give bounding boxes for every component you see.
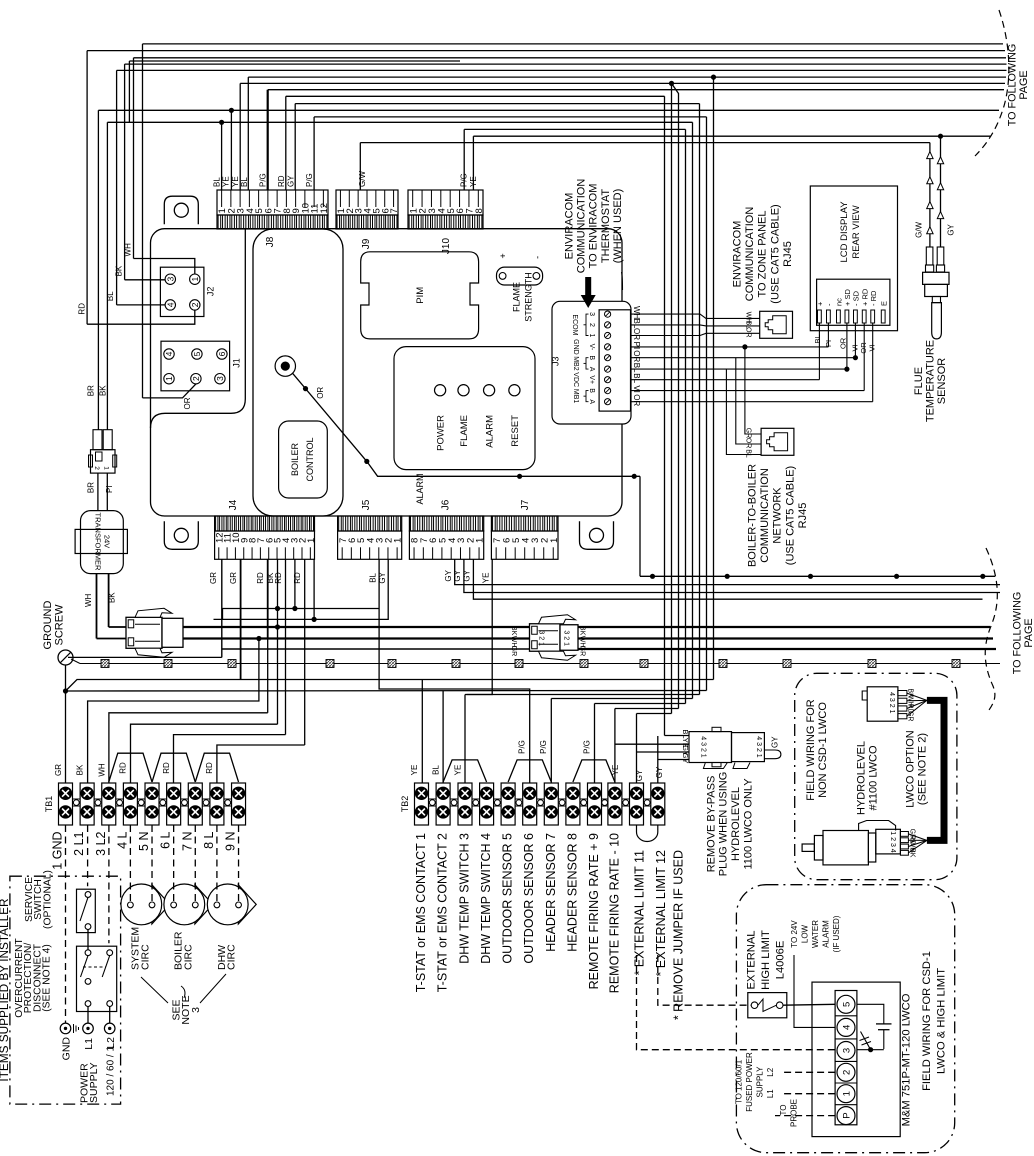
svg-text:GROUND: GROUND bbox=[42, 601, 54, 650]
svg-text:1100 LWCO ONLY: 1100 LWCO ONLY bbox=[742, 778, 754, 870]
svg-text:(SEE NOTE 4): (SEE NOTE 4) bbox=[42, 944, 53, 1012]
svg-text:TRANSFORMER: TRANSFORMER bbox=[93, 513, 102, 572]
svg-text:GND: GND bbox=[572, 339, 579, 355]
svg-text:REMOVE BY-PASS: REMOVE BY-PASS bbox=[705, 776, 717, 873]
svg-text:4: 4 bbox=[164, 351, 174, 356]
svg-text:COMMUNICATION: COMMUNICATION bbox=[744, 207, 756, 302]
svg-text:3: 3 bbox=[215, 376, 225, 381]
svg-text:E: E bbox=[879, 301, 888, 306]
svg-text:1: 1 bbox=[588, 334, 595, 338]
svg-text:FIELD WIRING FOR: FIELD WIRING FOR bbox=[805, 699, 817, 801]
svg-text:OR: OR bbox=[838, 337, 847, 349]
svg-text:9 N: 9 N bbox=[224, 832, 238, 851]
svg-text:P: P bbox=[842, 1112, 853, 1118]
svg-text:SUPPLY: SUPPLY bbox=[756, 1066, 765, 1098]
svg-text:LOW: LOW bbox=[801, 924, 810, 943]
svg-text:3: 3 bbox=[842, 1048, 853, 1053]
svg-text:BK: BK bbox=[908, 848, 915, 858]
svg-text:DHW TEMP SWITCH 3: DHW TEMP SWITCH 3 bbox=[458, 833, 472, 964]
svg-text:J8: J8 bbox=[265, 236, 276, 247]
svg-text:GR: GR bbox=[54, 764, 63, 776]
svg-text:+: + bbox=[816, 301, 825, 306]
svg-text:GR: GR bbox=[229, 572, 238, 584]
svg-text:GR: GR bbox=[209, 572, 218, 584]
svg-text:2: 2 bbox=[842, 1070, 853, 1075]
svg-text:PAGE: PAGE bbox=[1018, 70, 1030, 99]
svg-text:1: 1 bbox=[190, 277, 200, 282]
svg-text:CIRC: CIRC bbox=[182, 944, 194, 970]
svg-text:GY: GY bbox=[635, 769, 644, 781]
svg-text:TO 24V: TO 24V bbox=[790, 920, 799, 948]
svg-text:1: 1 bbox=[164, 376, 174, 381]
svg-text:OR: OR bbox=[632, 394, 641, 406]
svg-text:VDC: VDC bbox=[572, 372, 579, 387]
svg-text:REAR VIEW: REAR VIEW bbox=[851, 205, 862, 258]
svg-text:B: B bbox=[588, 355, 595, 360]
svg-text:VI: VI bbox=[867, 344, 876, 351]
svg-text:NON CSD-1 LWCO: NON CSD-1 LWCO bbox=[817, 702, 829, 798]
svg-text:BK: BK bbox=[76, 764, 85, 775]
svg-text:BL: BL bbox=[432, 765, 441, 775]
svg-text:BR: BR bbox=[87, 385, 96, 396]
svg-text:8 L: 8 L bbox=[202, 831, 216, 848]
svg-text:TO FOLLOWING: TO FOLLOWING bbox=[1007, 44, 1019, 127]
svg-text:J7: J7 bbox=[520, 499, 531, 510]
svg-text:J6: J6 bbox=[441, 499, 452, 510]
svg-text:6 L: 6 L bbox=[159, 831, 173, 848]
svg-text:ALARM: ALARM bbox=[822, 920, 831, 948]
svg-text:CONTROL: CONTROL bbox=[305, 437, 315, 481]
svg-text:COMMUNICATION: COMMUNICATION bbox=[759, 468, 771, 563]
svg-text:J1: J1 bbox=[232, 358, 242, 368]
svg-text:4 3 2 1: 4 3 2 1 bbox=[755, 736, 762, 758]
svg-text:J2: J2 bbox=[206, 287, 216, 297]
svg-text:YE: YE bbox=[410, 765, 419, 776]
svg-text:GY: GY bbox=[286, 175, 295, 187]
svg-text:TO ENVIRACOM: TO ENVIRACOM bbox=[588, 184, 600, 269]
svg-text:G/W: G/W bbox=[915, 221, 924, 237]
svg-text:WATER: WATER bbox=[811, 920, 820, 948]
svg-text:GY: GY bbox=[463, 569, 472, 581]
svg-text:120 / 60 / 1: 120 / 60 / 1 bbox=[106, 1046, 117, 1096]
svg-text:(USE CAT5 CABLE): (USE CAT5 CABLE) bbox=[784, 466, 796, 565]
svg-text:OR: OR bbox=[745, 327, 752, 338]
svg-text:BL: BL bbox=[813, 334, 822, 343]
svg-text:P/G: P/G bbox=[539, 740, 548, 754]
svg-text:SCREW: SCREW bbox=[54, 604, 66, 646]
svg-text:LWCO OPTION: LWCO OPTION bbox=[904, 730, 916, 807]
svg-text:12: 12 bbox=[319, 203, 330, 214]
svg-text:2: 2 bbox=[588, 323, 595, 327]
svg-text:COMMUNICATION: COMMUNICATION bbox=[576, 179, 588, 274]
svg-text:TB2: TB2 bbox=[400, 796, 410, 813]
svg-text:FLUE: FLUE bbox=[913, 367, 925, 395]
svg-text:1: 1 bbox=[306, 538, 317, 543]
svg-text:RD: RD bbox=[205, 762, 214, 774]
svg-text:RD: RD bbox=[77, 303, 86, 315]
svg-text:4: 4 bbox=[166, 302, 176, 307]
svg-text:BL: BL bbox=[632, 363, 641, 373]
svg-text:BL: BL bbox=[632, 373, 641, 383]
svg-text:P/G: P/G bbox=[460, 173, 469, 187]
svg-text:3: 3 bbox=[588, 312, 595, 316]
svg-text:2: 2 bbox=[191, 376, 201, 381]
svg-text:TEMPERATURE: TEMPERATURE bbox=[924, 340, 936, 422]
svg-text:HEADER SENSOR 8: HEADER SENSOR 8 bbox=[565, 833, 579, 952]
svg-text:M&M 751P-MT-120 LWCO: M&M 751P-MT-120 LWCO bbox=[901, 993, 913, 1126]
svg-text:YE: YE bbox=[222, 176, 231, 187]
svg-text:ALARM: ALARM bbox=[485, 415, 496, 448]
svg-text:OR: OR bbox=[745, 438, 752, 449]
svg-text:BOILER: BOILER bbox=[290, 442, 300, 476]
svg-text:BR: BR bbox=[87, 482, 96, 493]
svg-text:CIRC: CIRC bbox=[139, 944, 151, 970]
svg-text:1: 1 bbox=[549, 538, 560, 543]
svg-text:5: 5 bbox=[192, 351, 202, 356]
svg-text:PIM: PIM bbox=[415, 287, 426, 304]
svg-text:RD: RD bbox=[256, 572, 265, 584]
svg-text:PI: PI bbox=[105, 485, 114, 493]
svg-text:GR: GR bbox=[510, 646, 517, 657]
svg-text:7 N: 7 N bbox=[180, 832, 194, 851]
svg-text:4 3 2 1: 4 3 2 1 bbox=[888, 692, 895, 714]
svg-text:3 2 1: 3 2 1 bbox=[563, 630, 570, 646]
svg-text:HYDROLEVEL: HYDROLEVEL bbox=[730, 787, 742, 861]
svg-text:PLUG WHEN USING: PLUG WHEN USING bbox=[718, 772, 730, 877]
svg-text:WH: WH bbox=[84, 594, 93, 608]
svg-text:GR: GR bbox=[745, 428, 752, 439]
svg-text:YE: YE bbox=[482, 573, 491, 584]
svg-text:4 3 2 1: 4 3 2 1 bbox=[700, 736, 707, 758]
svg-text:PI: PI bbox=[632, 342, 641, 350]
svg-text:BL: BL bbox=[368, 572, 377, 582]
svg-text:ALARM: ALARM bbox=[415, 473, 425, 504]
svg-text:RJ45: RJ45 bbox=[797, 503, 809, 529]
svg-text:- RD: - RD bbox=[869, 290, 878, 306]
svg-text:THERMOSTAT: THERMOSTAT bbox=[600, 189, 612, 263]
svg-text:TO: TO bbox=[779, 1105, 788, 1116]
svg-text:GY: GY bbox=[947, 223, 956, 235]
svg-text:STRENGTH: STRENGTH bbox=[524, 272, 534, 322]
svg-text:2: 2 bbox=[190, 302, 200, 307]
svg-text:8: 8 bbox=[474, 208, 485, 213]
svg-text:HYDROLEVEL: HYDROLEVEL bbox=[855, 741, 867, 815]
svg-text:(IF USED): (IF USED) bbox=[832, 915, 841, 952]
svg-text:OUTDOOR SENSOR 6: OUTDOOR SENSOR 6 bbox=[522, 833, 536, 964]
svg-text:* EXTERNAL LIMIT 12: * EXTERNAL LIMIT 12 bbox=[654, 850, 668, 976]
svg-text:P/G: P/G bbox=[582, 740, 591, 754]
svg-text:MB2: MB2 bbox=[572, 356, 579, 371]
svg-text:GY: GY bbox=[770, 736, 779, 748]
svg-text:GY: GY bbox=[655, 766, 664, 778]
svg-text:BL: BL bbox=[240, 177, 249, 187]
svg-text:5: 5 bbox=[842, 1002, 853, 1007]
svg-text:REMOTE FIRING RATE - 10: REMOTE FIRING RATE - 10 bbox=[607, 833, 621, 993]
svg-text:V+: V+ bbox=[588, 375, 595, 384]
svg-text:RESET: RESET bbox=[510, 415, 521, 447]
svg-text:CIRC: CIRC bbox=[226, 944, 238, 970]
svg-text:OR: OR bbox=[632, 328, 641, 340]
svg-text:G/W: G/W bbox=[358, 171, 367, 187]
svg-text:RD: RD bbox=[119, 762, 128, 774]
svg-text:3: 3 bbox=[166, 277, 176, 282]
svg-text:(OPTIONAL): (OPTIONAL) bbox=[42, 870, 53, 929]
svg-text:RD: RD bbox=[274, 572, 283, 584]
svg-text:POWER: POWER bbox=[436, 415, 447, 451]
svg-text:L1: L1 bbox=[766, 1089, 775, 1098]
svg-text:-: - bbox=[533, 256, 543, 259]
svg-text:HEADER SENSOR 7: HEADER SENSOR 7 bbox=[544, 833, 558, 952]
svg-text:PROBE: PROBE bbox=[790, 1099, 799, 1127]
svg-text:ENVIRACOM: ENVIRACOM bbox=[564, 193, 576, 260]
svg-text:(WHEN USED): (WHEN USED) bbox=[612, 189, 624, 264]
svg-text:PAGE: PAGE bbox=[1023, 618, 1034, 647]
svg-text:TO FOLLOWING: TO FOLLOWING bbox=[1011, 592, 1023, 675]
svg-text:ITEMS SUPPLIED BY INSTALLER: ITEMS SUPPLIED BY INSTALLER bbox=[0, 898, 11, 1081]
svg-text:2 L1: 2 L1 bbox=[72, 831, 86, 855]
svg-text:7: 7 bbox=[389, 208, 400, 213]
svg-text:BL: BL bbox=[745, 449, 752, 458]
svg-text:3 2 1: 3 2 1 bbox=[538, 630, 545, 646]
svg-text:HIGH LIMIT: HIGH LIMIT bbox=[760, 930, 772, 990]
svg-text:L1: L1 bbox=[83, 1038, 95, 1050]
svg-text:TO 120/60/1: TO 120/60/1 bbox=[735, 1059, 744, 1104]
svg-text:BK: BK bbox=[107, 592, 116, 603]
svg-text:T-STAT or EMS CONTACT 2: T-STAT or EMS CONTACT 2 bbox=[436, 833, 450, 992]
svg-text:ENVIRACOM: ENVIRACOM bbox=[732, 221, 744, 288]
svg-text:OR: OR bbox=[183, 397, 192, 409]
svg-text:1 2 3 4: 1 2 3 4 bbox=[889, 831, 896, 853]
svg-text:BK: BK bbox=[98, 385, 107, 396]
svg-text:1: 1 bbox=[475, 538, 486, 543]
svg-text:6: 6 bbox=[217, 351, 227, 356]
svg-text:1 GND: 1 GND bbox=[51, 832, 65, 870]
svg-text:+: + bbox=[498, 253, 508, 258]
svg-text:RD: RD bbox=[293, 572, 302, 584]
svg-text:SENSOR: SENSOR bbox=[936, 358, 948, 405]
svg-text:YE: YE bbox=[454, 765, 463, 776]
svg-text:FLAME: FLAME bbox=[512, 282, 522, 312]
svg-text:T-STAT or EMS CONTACT 1: T-STAT or EMS CONTACT 1 bbox=[414, 833, 428, 992]
svg-text:24V: 24V bbox=[102, 535, 111, 548]
svg-text:(USE CAT5 CABLE): (USE CAT5 CABLE) bbox=[769, 204, 781, 303]
svg-text:ECOM: ECOM bbox=[571, 314, 578, 335]
svg-text:DHW TEMP SWITCH 4: DHW TEMP SWITCH 4 bbox=[479, 833, 493, 964]
svg-text:RJ45: RJ45 bbox=[782, 241, 794, 267]
svg-text:J9: J9 bbox=[361, 238, 372, 249]
svg-text:GR: GR bbox=[578, 646, 585, 657]
svg-text:J3: J3 bbox=[551, 356, 561, 366]
svg-text:WH: WH bbox=[632, 306, 641, 320]
svg-text:V-: V- bbox=[588, 344, 595, 351]
svg-text:A: A bbox=[588, 367, 595, 372]
svg-text:BL: BL bbox=[212, 177, 221, 187]
svg-text:TO ZONE PANEL: TO ZONE PANEL bbox=[757, 210, 769, 297]
svg-text:MB1: MB1 bbox=[572, 389, 579, 404]
svg-text:LCD DISPLAY: LCD DISPLAY bbox=[839, 201, 850, 263]
svg-text:VI: VI bbox=[632, 385, 641, 393]
svg-text:YE: YE bbox=[231, 176, 240, 187]
svg-text:SUPPLY: SUPPLY bbox=[88, 1062, 100, 1103]
svg-text:WH: WH bbox=[97, 763, 106, 777]
svg-text:P/G: P/G bbox=[518, 740, 527, 754]
svg-text:GY: GY bbox=[378, 571, 387, 583]
svg-text:OR: OR bbox=[632, 350, 641, 362]
svg-text:2: 2 bbox=[93, 466, 100, 470]
svg-text:P/G: P/G bbox=[305, 173, 314, 187]
svg-text:* EXTERNAL LIMIT 11: * EXTERNAL LIMIT 11 bbox=[633, 850, 647, 976]
svg-text:FIELD WIRING FOR CSD-1: FIELD WIRING FOR CSD-1 bbox=[921, 951, 933, 1091]
svg-text:5 N: 5 N bbox=[137, 832, 151, 851]
svg-text:WH: WH bbox=[123, 243, 132, 257]
svg-text:GY: GY bbox=[453, 569, 462, 581]
svg-text:1: 1 bbox=[393, 538, 404, 543]
svg-text:J5: J5 bbox=[361, 499, 372, 510]
svg-text:REMOTE FIRING RATE + 9: REMOTE FIRING RATE + 9 bbox=[587, 833, 601, 989]
svg-text:B: B bbox=[588, 388, 595, 393]
svg-text:OUTDOOR SENSOR 5: OUTDOOR SENSOR 5 bbox=[501, 833, 515, 964]
svg-text:L4006E: L4006E bbox=[775, 941, 787, 980]
svg-text:TB1: TB1 bbox=[44, 796, 54, 813]
svg-text:1: 1 bbox=[103, 466, 110, 470]
svg-text:GND: GND bbox=[61, 1037, 73, 1061]
svg-text:LWCO & HIGH LIMIT: LWCO & HIGH LIMIT bbox=[936, 968, 948, 1074]
svg-text:A: A bbox=[588, 399, 595, 404]
svg-text:RD: RD bbox=[162, 762, 171, 774]
svg-text:GY: GY bbox=[444, 569, 453, 581]
svg-text:P/G: P/G bbox=[259, 173, 268, 187]
svg-text:4: 4 bbox=[842, 1025, 853, 1030]
svg-text:YE: YE bbox=[469, 176, 478, 187]
svg-text:(SEE NOTE 2): (SEE NOTE 2) bbox=[916, 733, 928, 805]
svg-text:OR: OR bbox=[316, 387, 325, 399]
svg-text:3: 3 bbox=[190, 1007, 202, 1013]
svg-text:FUSED POWER: FUSED POWER bbox=[745, 1052, 754, 1112]
svg-text:1: 1 bbox=[842, 1091, 853, 1096]
svg-text:L2: L2 bbox=[766, 1067, 775, 1076]
svg-text:4 L: 4 L bbox=[115, 831, 129, 848]
svg-text:BOILER-TO-BOILER: BOILER-TO-BOILER bbox=[747, 464, 759, 567]
svg-text:RD: RD bbox=[277, 175, 286, 187]
svg-text:* REMOVE JUMPER IF USED: * REMOVE JUMPER IF USED bbox=[672, 850, 686, 1020]
svg-text:FLAME: FLAME bbox=[459, 415, 470, 447]
svg-text:J4: J4 bbox=[228, 499, 239, 510]
svg-text:3 L2: 3 L2 bbox=[94, 831, 108, 855]
svg-text:EXTERNAL: EXTERNAL bbox=[745, 930, 757, 989]
svg-text:NETWORK: NETWORK bbox=[772, 487, 784, 544]
svg-text:#1100 LWCO: #1100 LWCO bbox=[867, 745, 879, 810]
svg-text:- SD: - SD bbox=[852, 290, 861, 306]
svg-text:BK: BK bbox=[115, 265, 124, 276]
